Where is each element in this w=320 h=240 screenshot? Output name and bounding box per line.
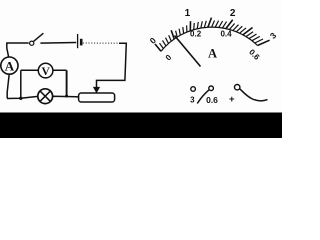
dial ticks: [155, 44, 161, 51]
svg-text:+: +: [229, 94, 235, 105]
rheostat slider arrow: [93, 87, 100, 94]
lead wire into 0.6 terminal: [197, 90, 209, 103]
voltmeter loop right vertical: [66, 70, 68, 96]
switch S: [30, 33, 44, 45]
terminal 3 circle: [191, 87, 196, 92]
lamp L: [38, 89, 53, 104]
junction left: [19, 97, 22, 100]
wire: bottom wire: [7, 96, 77, 98]
svg-text:A: A: [5, 58, 15, 73]
svg-text:V: V: [41, 66, 50, 78]
wire: right corner solid part: [97, 43, 127, 87]
battery long plate (+): [77, 34, 79, 48]
voltmeter loop left vertical: [20, 70, 22, 98]
wire: switch to battery: [40, 42, 76, 45]
wire: left vertical lower (ammeter to bottom wire): [7, 74, 9, 98]
svg-text:0.2: 0.2: [190, 29, 202, 38]
wire: bottom wire into rheostat: [76, 96, 79, 98]
rheostat R: [79, 93, 115, 102]
wire: top-left corner to switch: [7, 42, 29, 44]
svg-text:1: 1: [185, 8, 191, 19]
svg-text:A: A: [208, 47, 217, 61]
terminal 0.6 circle: [209, 86, 214, 91]
junction right: [65, 95, 68, 98]
dial scale arc: [161, 27, 258, 51]
svg-text:3: 3: [190, 95, 195, 104]
svg-text:0.6: 0.6: [206, 95, 218, 105]
bottom black bar: [0, 113, 282, 139]
lead wire from + terminal: [240, 89, 268, 101]
wire: left vertical upper (corner to ammeter top): [7, 42, 9, 57]
voltmeter loop top wire: [21, 69, 67, 71]
svg-text:2: 2: [230, 8, 236, 19]
needle: [175, 36, 201, 67]
voltmeter V: [38, 63, 53, 78]
wire: battery to right corner (faint dotted): [83, 42, 120, 44]
terminal + circle: [235, 85, 240, 90]
battery short plate (-): [80, 39, 83, 46]
svg-text:0.4: 0.4: [220, 29, 232, 38]
ammeter A: [1, 57, 18, 74]
